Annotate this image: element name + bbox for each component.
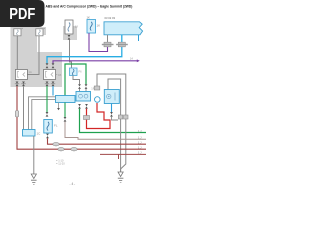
oval connector on red1	[53, 143, 59, 146]
blue stub on relay block right	[138, 35, 140, 41]
inline connector on cyan lead	[116, 42, 128, 47]
relay block RB (big cyan box)	[104, 22, 143, 35]
arrow into compressor right pin	[85, 84, 88, 89]
connector on outer U leg	[94, 86, 100, 90]
wire F5 to compressor	[73, 76, 80, 85]
ground symbol left	[31, 174, 37, 184]
outer U gray wire	[97, 74, 126, 172]
gray lead from relay block	[107, 35, 109, 43]
wire end labels right margin	[138, 129, 142, 154]
svg-text:1B: 1B	[58, 73, 61, 77]
relay R1	[15, 70, 32, 80]
arrow above resistor	[46, 112, 49, 117]
fusible link FL3	[65, 20, 78, 34]
maroon line L4	[100, 153, 146, 155]
wide solenoid box (cyan)	[56, 96, 76, 103]
red wire from resistor	[48, 138, 147, 144]
gray harness panel C (right-bottom block)	[37, 52, 62, 87]
svg-text:1K: 1K	[97, 24, 101, 28]
PDF badge	[0, 0, 45, 27]
lower junction box (cyan)	[23, 130, 42, 137]
diamond connector on red wire	[15, 111, 18, 118]
svg-text:= 11-20: = 11-20	[56, 161, 65, 165]
gray harness panel A (top strip)	[11, 27, 47, 35]
green loop wire	[65, 64, 86, 96]
gray harness panel B (left block)	[11, 27, 38, 87]
junction on red wire	[84, 116, 90, 120]
arrow into compressor left pin	[78, 84, 81, 89]
purple wire from FL4 to junction	[89, 33, 108, 52]
svg-text:03 02 03: 03 02 03	[105, 16, 116, 20]
connector J1	[14, 28, 23, 36]
svg-text:1A: 1A	[29, 70, 32, 74]
oval connector on red2 b	[71, 148, 77, 151]
arrow under resistor	[46, 134, 49, 139]
oval connector on red2	[58, 148, 64, 151]
arrow on green stub	[64, 117, 67, 122]
arrow under compressor right pin	[85, 104, 88, 109]
gray harness panel D (fuse strip)	[63, 26, 77, 40]
connector J2	[36, 28, 45, 36]
W1 wire to lower junction box	[29, 97, 56, 130]
inline connector on gray lead	[102, 42, 114, 47]
ground symbol right	[118, 172, 124, 182]
long purple wire	[53, 61, 138, 64]
connector squares on ground legs	[118, 115, 122, 119]
connector arrow purple to relay R2	[52, 63, 55, 68]
gray tail under pump	[112, 117, 119, 120]
resistor/fusible link (cyan box)	[44, 120, 58, 134]
svg-text:1J: 1J	[75, 25, 79, 29]
white wire L path	[65, 122, 146, 140]
svg-text:PDF: PDF	[9, 6, 35, 23]
fuse F5 (cyan)	[70, 68, 83, 76]
noise filter circle	[95, 97, 101, 103]
arrows under relay R2	[46, 82, 49, 87]
arrow under compressor left pin	[78, 104, 81, 109]
svg-text:1K: 1K	[87, 16, 91, 20]
ground wire left	[33, 136, 35, 174]
gray wire from relay R1 down	[23, 86, 25, 129]
white stub and arrow under solenoid left pin	[58, 103, 60, 109]
page background	[0, 0, 149, 198]
arrows under relay R1	[16, 82, 19, 87]
blue stub under pump	[111, 104, 113, 113]
long cyan wire from relay block to relay R2	[47, 35, 122, 64]
fusible link FL4 (cyan)	[87, 20, 100, 34]
compressor clutch (cyan box)	[76, 87, 95, 102]
connector arrow under FL3	[68, 35, 71, 40]
wire from connector J1 down to relay R1	[16, 36, 18, 70]
left red vertical wire	[17, 86, 146, 149]
long green wire to right	[80, 109, 147, 133]
stubs into compressor box	[79, 89, 81, 92]
relay R2	[44, 70, 62, 80]
arrow under pump	[110, 112, 113, 117]
green wire from relay R2 down	[46, 86, 48, 112]
legend text	[56, 158, 65, 165]
connector arrow cyan to relay R2	[46, 63, 49, 68]
green stub under solenoid	[64, 103, 66, 118]
pump motor (cyan box)	[104, 90, 119, 104]
blue stub into solenoid	[52, 86, 54, 95]
svg-text:- 4 -: - 4 -	[70, 182, 76, 186]
svg-text:ABS and A/C Compressor (2WD) –: ABS and A/C Compressor (2WD) – Eagle Sum…	[46, 4, 133, 8]
red wire staircase	[87, 103, 111, 129]
wire from connector J2 jog to relay R1	[27, 36, 39, 75]
stub on L4	[118, 154, 120, 159]
W2 wire to lower junction box	[32, 100, 56, 130]
svg-text:FL: FL	[54, 124, 58, 128]
wire FL3 to fuse F5	[70, 40, 72, 68]
inner U gray wire	[108, 79, 121, 172]
